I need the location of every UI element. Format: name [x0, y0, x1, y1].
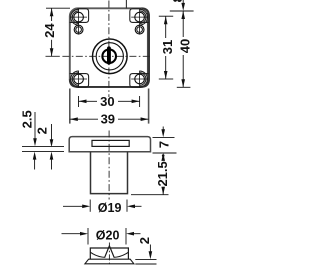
svg-text:30: 30	[100, 94, 114, 109]
dimension 8 (cropped at top)	[182, 0, 184, 4]
dimension 2 (cap)	[135, 245, 156, 265]
cap centerline	[108, 243, 110, 267]
side view centerline	[108, 131, 110, 200]
dimension 21.5	[131, 187, 169, 195]
svg-text:2: 2	[35, 127, 50, 134]
cap base dish	[85, 259, 134, 264]
small hole right	[135, 25, 144, 34]
svg-text:Ø20: Ø20	[96, 229, 120, 243]
keyhole ring	[102, 49, 116, 63]
svg-text:39: 39	[101, 112, 115, 127]
dimension 31	[159, 16, 173, 79]
plate inner edge line right	[146, 13, 148, 83]
screw hole BR	[131, 71, 148, 88]
screw hole BL	[70, 71, 87, 88]
dimension Ø20	[62, 228, 141, 245]
svg-text:24: 24	[42, 23, 57, 38]
svg-text:40: 40	[177, 39, 192, 53]
cylinder inner circle	[96, 43, 123, 70]
plate outline (plan view)	[70, 8, 149, 87]
side view body	[69, 137, 150, 152]
recess BR	[130, 71, 149, 87]
dimension 7	[153, 127, 177, 154]
cylinder outer circle	[93, 39, 128, 74]
cap upper outline	[90, 248, 128, 259]
dimension 2.5	[22, 112, 64, 170]
cap inner curves	[90, 252, 105, 257]
extension line stub top	[125, 0, 127, 8]
dimension 2 (side)	[51, 124, 53, 170]
cap tent peak	[105, 246, 114, 257]
svg-text:31: 31	[160, 40, 175, 54]
vertical centerline plan view	[108, 1, 110, 98]
dimension Ø19	[63, 200, 142, 212]
svg-text:7: 7	[157, 141, 172, 148]
svg-text:21.5: 21.5	[155, 161, 170, 186]
plate edge shadow right+bottom	[70, 8, 149, 87]
recess TR	[130, 9, 149, 25]
recess BL	[70, 71, 89, 87]
keyhole slot	[107, 46, 111, 64]
side view cylinder	[91, 152, 128, 194]
svg-text:Ø19: Ø19	[98, 201, 122, 215]
horizontal centerline plan view	[46, 55, 60, 57]
screw hole TR	[131, 9, 148, 34]
svg-text:2: 2	[137, 237, 152, 244]
dimension 40	[170, 11, 194, 87]
small hole left	[74, 25, 83, 34]
screw hole TL	[70, 9, 87, 34]
recess TL	[70, 9, 89, 25]
dimension 39	[70, 89, 149, 124]
svg-text:8: 8	[170, 0, 185, 2]
dimension 30	[79, 96, 140, 107]
svg-text:2.5: 2.5	[19, 110, 34, 128]
side view slot	[92, 140, 129, 146]
dimension 24	[46, 8, 70, 56]
